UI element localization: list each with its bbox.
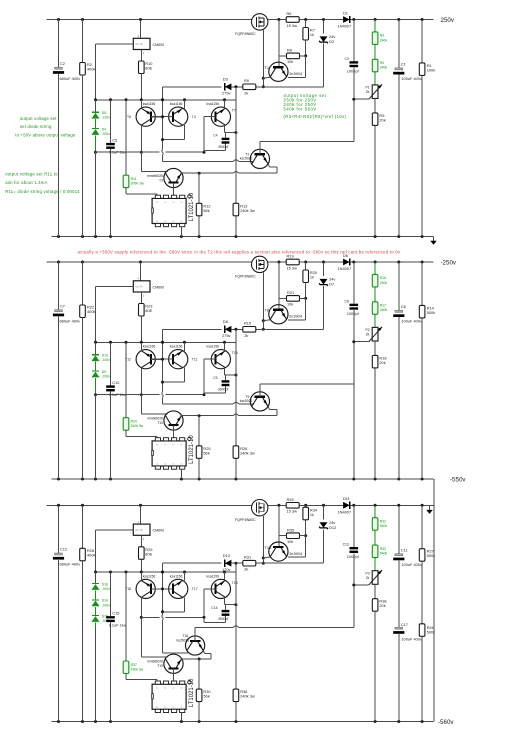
wire bottom rail -550v [52, 478, 434, 480]
svg-text:680uF 400v: 680uF 400v [60, 562, 81, 567]
wire pot wiper to feedback node [354, 341, 369, 343]
svg-text:10k: 10k [287, 302, 293, 307]
svg-text:R15: R15 [244, 321, 251, 326]
wire box left pin to diode string column [96, 286, 134, 288]
resistor R5 [374, 99, 376, 113]
capacitor C5 [110, 100, 112, 143]
svg-text:56k: 56k [203, 450, 209, 455]
diode D5 [95, 100, 97, 112]
svg-text:R11= diode string voltage / 0.: R11= diode string voltage / 0.00014 [5, 189, 80, 194]
svg-text:T1: T1 [265, 65, 270, 70]
svg-text:500k: 500k [427, 310, 435, 315]
resistor R36 [235, 563, 237, 689]
svg-text:D14: D14 [102, 599, 108, 603]
capacitor C8 [353, 262, 355, 304]
wire T1 base from rail [278, 20, 280, 68]
diode D10 [95, 342, 97, 354]
resistor R29 [140, 535, 142, 547]
svg-text:240k: 240k [380, 308, 388, 312]
svg-text:aim for about 1.4mA: aim for about 1.4mA [5, 180, 47, 185]
svg-text:3900pf: 3900pf [218, 387, 228, 391]
wire pot wiper to feedback node [354, 584, 369, 586]
capacitor C2 [58, 20, 60, 68]
resistor R30 [198, 659, 200, 689]
svg-text:2k: 2k [366, 576, 370, 580]
resistor R7 [305, 20, 307, 28]
resistor R9 [243, 84, 256, 90]
resistor R21 [287, 296, 300, 302]
wire T6 emitter to bus [140, 572, 142, 581]
wire bottom rail GND [52, 236, 434, 238]
ic LT1021-10 [152, 441, 186, 466]
svg-text:1N4007: 1N4007 [338, 24, 352, 29]
capacitor C12 [58, 505, 60, 553]
wire T1 base from rail [278, 262, 280, 310]
svg-text:240k 3w: 240k 3w [240, 694, 255, 699]
resistor R6 source [286, 17, 299, 23]
svg-text:20k: 20k [379, 603, 385, 608]
svg-text:C4: C4 [213, 134, 217, 138]
wire T6 emitter to bus [140, 100, 142, 109]
svg-text:R32: R32 [380, 520, 386, 524]
resistor R22 [82, 262, 84, 305]
transistor T2 [250, 149, 269, 168]
node GND marker [433, 237, 435, 242]
svg-text:100v: 100v [103, 358, 111, 362]
wire mirror ladder column [162, 563, 164, 615]
svg-text:ksa1156: ksa1156 [170, 574, 183, 578]
svg-text:R3: R3 [380, 34, 384, 38]
wire T1 emitter [263, 320, 270, 321]
svg-text:240k: 240k [380, 281, 388, 285]
wire diode string to T7 base [96, 151, 160, 153]
wire mosfet gate [262, 30, 264, 78]
svg-text:CM600: CM600 [153, 529, 165, 533]
wire T6 collector down [140, 368, 142, 395]
svg-text:FQPF8N80C: FQPF8N80C [235, 518, 256, 522]
wire T4 emitter to bus [184, 100, 186, 109]
svg-text:R11: R11 [131, 177, 137, 181]
svg-text:540k: 540k [380, 552, 388, 556]
wire T1 emitter [263, 557, 270, 558]
svg-text:T16: T16 [182, 634, 188, 638]
svg-text:LT1021-10: LT1021-10 [189, 678, 195, 707]
svg-text:C11: C11 [401, 547, 408, 552]
svg-text:CM600: CM600 [153, 43, 165, 47]
svg-text:trim Po: trim Po [135, 43, 143, 46]
resistor R1 [421, 20, 423, 63]
svg-text:R21: R21 [287, 290, 294, 295]
resistor R10 [140, 50, 142, 62]
wire T3 base to IC [173, 669, 175, 681]
svg-text:100uF 400v: 100uF 400v [401, 76, 422, 81]
resistor R27 [421, 505, 423, 548]
wire T4 collector to mirror U [184, 597, 186, 612]
svg-text:15 3w: 15 3w [287, 23, 298, 28]
zener diode D7 [323, 262, 325, 276]
svg-text:R6: R6 [287, 11, 292, 16]
svg-text:240k 3w: 240k 3w [240, 450, 255, 455]
svg-text:D16: D16 [102, 582, 108, 586]
svg-text:2k: 2k [366, 333, 370, 337]
svg-text:2k: 2k [366, 90, 370, 94]
wire T3 emitter row [181, 658, 212, 660]
mosfet FQPF8N80C [252, 256, 268, 272]
resistor R34 [305, 505, 307, 507]
diode D1 [343, 16, 350, 23]
svg-text:D6: D6 [343, 253, 348, 258]
svg-text:C8: C8 [344, 299, 348, 303]
svg-text:ksa1156: ksa1156 [170, 345, 183, 349]
svg-text:LT1021-10: LT1021-10 [189, 192, 195, 221]
svg-text:C14: C14 [211, 606, 217, 610]
svg-text:T11: T11 [192, 357, 198, 361]
wire T1 collector [305, 298, 307, 319]
svg-text:D4: D4 [102, 127, 106, 131]
svg-text:R35: R35 [287, 528, 294, 533]
svg-text:-550v: -550v [450, 476, 466, 483]
svg-text:T17: T17 [192, 587, 198, 591]
zener diode D12 [323, 505, 325, 519]
svg-text:actually a +300V supply refere: actually a +300V supply referenced to th… [78, 250, 401, 255]
svg-text:2n3904: 2n3904 [289, 71, 303, 76]
capacitor C11 [398, 505, 400, 553]
svg-text:275v: 275v [222, 90, 230, 95]
svg-text:mmbt6026: mmbt6026 [147, 174, 163, 178]
mosfet FQPF8N80C [252, 14, 268, 30]
resistor R39 source [286, 503, 299, 509]
diode D11 [343, 502, 350, 509]
svg-text:400k: 400k [87, 67, 95, 72]
svg-text:240k: 240k [380, 38, 388, 42]
svg-text:(R3+R4+R5)/(R5)*vref (10v): (R3+R4+R5)/(R5)*vref (10v) [284, 114, 347, 119]
resistor R24 green [125, 342, 127, 417]
svg-text:-560v: -560v [438, 719, 454, 726]
svg-text:3900pf: 3900pf [218, 145, 228, 149]
svg-text:15 3w: 15 3w [287, 265, 298, 270]
svg-text:to +50V above output voltage: to +50V above output voltage [15, 132, 76, 137]
svg-text:T19: T19 [157, 664, 163, 668]
svg-text:CM600: CM600 [153, 285, 165, 289]
wire IC pin to bottom rail [180, 713, 182, 722]
svg-text:C5: C5 [112, 137, 117, 142]
resistor R37 green [125, 572, 127, 661]
svg-text:trim Po: trim Po [135, 529, 143, 532]
wire collector to R13 column [225, 132, 236, 134]
ic LT1021-10 [152, 198, 186, 223]
svg-text:15 3w: 15 3w [287, 509, 298, 514]
wire T4 collector to mirror U [184, 368, 186, 383]
wire box left pin to diode string column [96, 529, 134, 531]
svg-text:ksc5026: ksc5026 [240, 399, 253, 403]
wire T2 emitter return [268, 407, 269, 410]
wire T2 emitter return [268, 164, 269, 167]
diode D4 [95, 119, 97, 128]
svg-text:C9: C9 [213, 376, 217, 380]
wire box left pin to diode string column [96, 43, 134, 45]
svg-text:1000pf: 1000pf [347, 311, 360, 316]
wire T7 collector down [224, 597, 226, 604]
wire emitter bus [96, 571, 236, 573]
diode D6 [343, 259, 350, 266]
resistor R14 [421, 262, 423, 305]
svg-text:100uF 400v: 100uF 400v [401, 562, 422, 567]
resistor R31 [243, 560, 256, 566]
svg-text:100uF 400v: 100uF 400v [401, 637, 422, 642]
svg-text:mmbt6026: mmbt6026 [147, 660, 163, 664]
svg-text:R9: R9 [244, 78, 249, 83]
transistor T14 [269, 542, 288, 561]
resistor R25 [198, 416, 200, 446]
svg-text:D12: D12 [329, 525, 336, 530]
transistor T7 [211, 107, 230, 126]
svg-text:T4: T4 [192, 115, 196, 119]
wire gate drive node [163, 562, 222, 564]
wire gate drive node [163, 328, 222, 330]
resistor R20 [305, 262, 307, 270]
wire mosfet gate [262, 516, 264, 558]
svg-text:D11: D11 [343, 496, 350, 501]
wire mirror ladder column [162, 329, 164, 392]
wire T2 base to feedback capacitor [194, 628, 196, 641]
resistor R26 [235, 329, 237, 446]
wire T4 emitter to bus [184, 342, 186, 351]
svg-text:R16: R16 [380, 276, 386, 280]
svg-text:FQPF8N80C: FQPF8N80C [235, 32, 256, 36]
svg-text:ksa1156: ksa1156 [143, 102, 156, 106]
svg-text:D13: D13 [223, 553, 230, 558]
svg-text:2n3904: 2n3904 [289, 314, 303, 319]
svg-text:T6: T6 [127, 115, 131, 119]
svg-text:C3: C3 [344, 57, 348, 61]
resistor R18 [374, 341, 376, 355]
resistor R23 [140, 292, 142, 304]
svg-text:-250v: -250v [441, 259, 457, 266]
capacitor C1 [398, 20, 400, 68]
wire T7 emitter to bus [224, 342, 226, 351]
svg-text:680uF 400v: 680uF 400v [60, 318, 81, 323]
svg-text:T13: T13 [232, 351, 238, 355]
transistor T18 [136, 579, 155, 598]
svg-text:C10: C10 [112, 380, 120, 385]
wire T4 emitter to bus [184, 572, 186, 581]
capacitor C7 [58, 262, 60, 310]
diode D15 [92, 615, 99, 617]
svg-text:C7: C7 [60, 303, 65, 308]
svg-text:R39: R39 [287, 497, 294, 502]
svg-text:R37: R37 [131, 663, 137, 667]
svg-text:R17: R17 [380, 304, 386, 308]
svg-text:T8: T8 [265, 308, 270, 313]
svg-text:200v: 200v [103, 374, 111, 378]
resistor R19 source [286, 259, 299, 265]
svg-text:R19: R19 [287, 254, 294, 259]
resistor R32 green [374, 505, 376, 517]
svg-text:56k: 56k [203, 694, 209, 699]
svg-text:200v: 200v [103, 132, 111, 136]
svg-text:1000pf: 1000pf [347, 68, 360, 73]
capacitor C4 [222, 138, 230, 140]
svg-text:R24: R24 [131, 420, 137, 424]
wire diode string to T7 base [96, 394, 160, 396]
svg-text:R4: R4 [380, 61, 384, 65]
svg-text:2k: 2k [244, 567, 248, 572]
resistor R12 [198, 173, 200, 203]
potentiometer P1 [372, 85, 378, 99]
svg-text:ksa1156: ksa1156 [143, 345, 156, 349]
svg-text:P1: P1 [366, 86, 370, 90]
svg-text:D2: D2 [329, 39, 334, 44]
transistor T8 [269, 305, 288, 324]
transistor T12 [136, 350, 155, 369]
svg-text:P3: P3 [366, 572, 370, 576]
svg-text:C6: C6 [401, 304, 406, 309]
diode D16 [92, 583, 99, 585]
svg-text:D10: D10 [102, 354, 108, 358]
ic LT1021-10 [152, 684, 186, 709]
svg-text:P2: P2 [366, 328, 370, 332]
capacitor C15 [110, 572, 112, 616]
svg-text:D5: D5 [102, 111, 106, 115]
wire C4 bottom to T7 base [204, 392, 226, 394]
wire emitter bus [96, 99, 236, 101]
svg-text:2k: 2k [244, 333, 248, 338]
capacitor C6 [398, 262, 400, 310]
svg-text:R33: R33 [380, 547, 386, 551]
svg-text:10k: 10k [287, 539, 293, 544]
svg-text:200v: 200v [103, 603, 111, 607]
svg-text:LT1021-10: LT1021-10 [189, 435, 195, 464]
svg-text:100uF 400v: 100uF 400v [401, 319, 422, 324]
resistor R41 [419, 624, 425, 637]
wire T3 base to IC [173, 425, 175, 437]
wire T7 collector down [224, 368, 226, 375]
wire T3 base to IC [173, 183, 175, 195]
resistor R4 green [374, 44, 376, 59]
wire bottom rail -560v [52, 721, 434, 723]
svg-text:540k: 540k [380, 524, 388, 528]
svg-text:680uF 400v: 680uF 400v [60, 76, 81, 81]
svg-text:80E: 80E [145, 66, 152, 71]
svg-text:ksa1156: ksa1156 [143, 574, 156, 578]
wire mirror ladder column [162, 87, 164, 150]
transistor T17 [169, 579, 188, 598]
svg-text:ksa1156: ksa1156 [207, 102, 220, 106]
wire top rail -250v [47, 261, 252, 263]
svg-text:C17: C17 [401, 622, 408, 627]
resistor R2 [82, 20, 84, 63]
resistor R28 [82, 505, 84, 548]
wire top rail 250v [47, 19, 252, 21]
wire T3 emitter row [181, 415, 233, 417]
svg-text:3900pf: 3900pf [218, 617, 228, 621]
svg-text:1000pf: 1000pf [347, 554, 360, 559]
svg-text:120v: 120v [103, 116, 111, 120]
resistor R8 [287, 53, 300, 59]
wire T6 collector down [140, 125, 142, 152]
svg-text:D1: D1 [343, 10, 348, 15]
svg-text:1k: 1k [310, 512, 314, 517]
resistor R3 green [374, 20, 376, 32]
wire IC pin to bottom rail [180, 469, 182, 479]
potentiometer P2 [372, 327, 378, 341]
wire T1 collector [305, 536, 307, 557]
transistor T16 [186, 636, 205, 655]
resistor R35 [287, 533, 300, 539]
resistor R38 [374, 584, 376, 598]
transistor T1 [269, 62, 288, 81]
wire emitter bus [96, 341, 236, 343]
svg-text:FQPF8N80C: FQPF8N80C [235, 275, 256, 279]
svg-text:1N4007: 1N4007 [338, 509, 352, 514]
svg-text:R8: R8 [287, 48, 292, 53]
wire T7 emitter to bus [224, 572, 226, 581]
svg-text:set diode string: set diode string [20, 124, 52, 129]
svg-text:T3: T3 [159, 178, 163, 182]
resistor R15 [243, 327, 256, 333]
svg-text:250v: 250v [441, 17, 455, 24]
svg-text:D9: D9 [102, 370, 106, 374]
svg-text:1k: 1k [310, 275, 314, 280]
svg-text:275v: 275v [222, 333, 230, 338]
svg-text:540k for 560V: 540k for 560V [284, 107, 317, 112]
wire T1 emitter [263, 77, 270, 78]
wire T6 collector down [140, 597, 142, 617]
resistor R17 green [374, 287, 376, 302]
zener diode D2 [323, 20, 325, 34]
wire C4 bottom to T7 base [204, 149, 226, 151]
transistor T6 [136, 107, 155, 126]
svg-text:200v: 200v [103, 587, 111, 591]
svg-text:2n3904: 2n3904 [289, 551, 303, 556]
diode D8 [225, 326, 232, 333]
wire T1 collector [305, 56, 307, 77]
svg-text:0.1uF 1kv: 0.1uF 1kv [109, 623, 126, 628]
svg-text:20k: 20k [379, 360, 385, 365]
capacitor C14 [222, 610, 230, 612]
transistor T10 [164, 411, 183, 430]
svg-text:output voltage set R11 to: output voltage set R11 to [5, 171, 58, 176]
diode D3 [225, 83, 232, 90]
diode string column [95, 572, 97, 584]
wire T7 emitter to bus [224, 100, 226, 109]
diode D13 [225, 560, 232, 567]
capacitor C17 [395, 627, 403, 629]
wire gate drive node [163, 86, 222, 88]
wire T6 emitter to bus [140, 342, 142, 351]
svg-text:430k 3w: 430k 3w [131, 668, 144, 672]
resistor R11 green [125, 100, 127, 175]
svg-text:C1: C1 [401, 62, 406, 67]
resistor R16 green [374, 262, 376, 274]
svg-text:ksc5026: ksc5026 [240, 157, 253, 161]
svg-text:output voltage set: output voltage set [20, 116, 57, 121]
svg-text:T18: T18 [125, 587, 131, 591]
wire mosfet gate [262, 273, 264, 321]
svg-text:56k: 56k [203, 208, 209, 213]
module CM600 [140, 262, 142, 281]
mosfet FQPF8N80C [252, 500, 268, 516]
svg-text:T12: T12 [125, 357, 131, 361]
svg-text:D8: D8 [223, 319, 228, 324]
transistor T9 [250, 392, 269, 411]
capacitor C13 [353, 505, 355, 547]
module CM600 [140, 20, 142, 39]
transistor T4 [169, 107, 188, 126]
wire interconnect -550v to -560v rail [433, 479, 435, 722]
svg-text:T15: T15 [232, 581, 238, 585]
svg-text:1k: 1k [310, 32, 314, 37]
